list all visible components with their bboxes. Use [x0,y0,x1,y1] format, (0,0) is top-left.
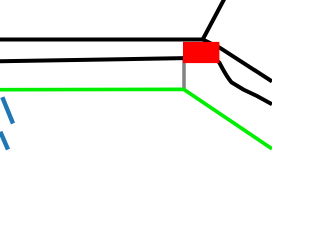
wire blue dash 2 [0,132,8,150]
node red box vehicle [183,42,219,63]
wire gray vertical pole [182,57,186,90]
wire second road edge curving down right [0,58,272,105]
wire blue dash 1 [2,97,13,123]
wire green boundary [0,89,272,149]
wire top road edge with junction bend [0,40,272,82]
wire top diagonal into junction [203,0,226,40]
